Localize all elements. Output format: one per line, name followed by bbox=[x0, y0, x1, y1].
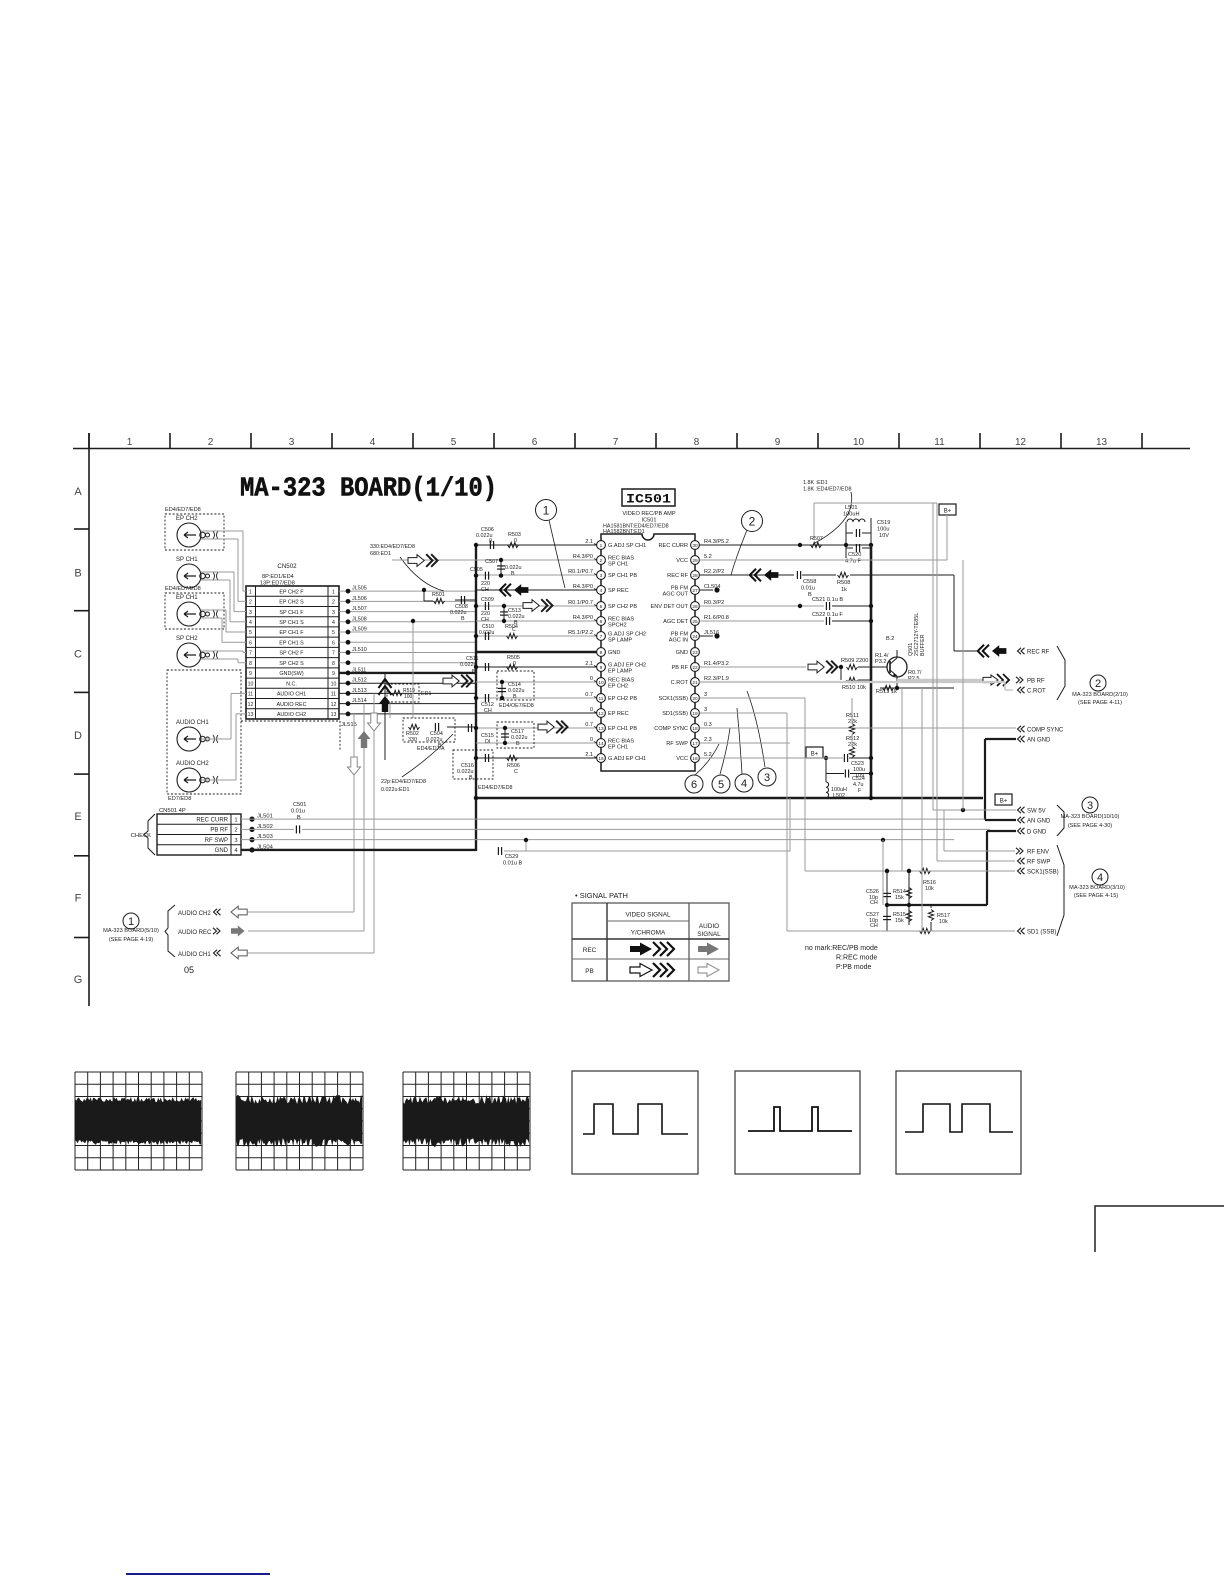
svg-text:HA1582BNT:ED1: HA1582BNT:ED1 bbox=[603, 529, 645, 535]
svg-text:JL506: JL506 bbox=[352, 596, 367, 602]
svg-text:0: 0 bbox=[514, 538, 517, 544]
svg-text:ED4/ED7/A: ED4/ED7/A bbox=[417, 746, 445, 752]
svg-text:10: 10 bbox=[853, 437, 865, 448]
svg-text:13: 13 bbox=[248, 712, 254, 718]
svg-text:ED4/OE7/ED8: ED4/OE7/ED8 bbox=[499, 703, 534, 709]
svg-text:3: 3 bbox=[249, 610, 252, 616]
svg-text:B: B bbox=[461, 616, 465, 622]
svg-text:4: 4 bbox=[249, 620, 252, 626]
svg-text:22: 22 bbox=[692, 665, 698, 671]
svg-text:1: 1 bbox=[234, 817, 237, 823]
svg-text:0.022u: 0.022u bbox=[479, 630, 495, 636]
svg-text:1: 1 bbox=[249, 589, 252, 595]
svg-text:AN GND: AN GND bbox=[1027, 818, 1051, 824]
svg-text:3: 3 bbox=[704, 707, 707, 713]
svg-text:CH: CH bbox=[481, 587, 489, 593]
svg-text:1: 1 bbox=[543, 503, 550, 517]
svg-text:5.2: 5.2 bbox=[704, 554, 712, 560]
svg-text:B: B bbox=[469, 775, 473, 781]
svg-text:VCC: VCC bbox=[676, 558, 688, 564]
svg-text:R4.3/P0: R4.3/P0 bbox=[573, 584, 593, 590]
svg-text:C520: C520 bbox=[848, 552, 861, 558]
svg-text:• SIGNAL PATH: • SIGNAL PATH bbox=[575, 891, 628, 900]
svg-text:0.022u:ED1: 0.022u:ED1 bbox=[381, 787, 409, 793]
svg-text:19: 19 bbox=[692, 711, 698, 717]
svg-text:C509: C509 bbox=[481, 597, 494, 603]
svg-text:1: 1 bbox=[128, 916, 134, 928]
svg-text:AUDIO CH2: AUDIO CH2 bbox=[176, 761, 209, 767]
svg-text:GND: GND bbox=[676, 650, 688, 656]
svg-text:330: 330 bbox=[408, 737, 417, 743]
svg-text:4.7u F: 4.7u F bbox=[845, 559, 861, 565]
svg-text:4: 4 bbox=[370, 437, 376, 448]
svg-text:12: 12 bbox=[331, 702, 337, 708]
svg-text:C529: C529 bbox=[505, 854, 518, 860]
svg-text:P:PB mode: P:PB mode bbox=[836, 964, 872, 971]
svg-text:AUDIO CH2: AUDIO CH2 bbox=[178, 911, 211, 917]
svg-text:AGC OUT: AGC OUT bbox=[663, 592, 689, 598]
svg-text:ENV DET OUT: ENV DET OUT bbox=[650, 604, 688, 610]
svg-text:0: 0 bbox=[590, 676, 593, 682]
svg-text:B: B bbox=[513, 694, 517, 700]
svg-text:0: 0 bbox=[513, 661, 516, 667]
svg-text:EP CH1: EP CH1 bbox=[176, 595, 198, 601]
svg-text:C505: C505 bbox=[470, 567, 483, 573]
svg-text:5.2: 5.2 bbox=[704, 752, 712, 758]
svg-text:1: 1 bbox=[332, 589, 335, 595]
svg-text:C519: C519 bbox=[877, 520, 890, 526]
svg-text:ED4/ED7/ED8: ED4/ED7/ED8 bbox=[165, 586, 201, 592]
svg-text:2: 2 bbox=[234, 828, 237, 834]
svg-text:5: 5 bbox=[332, 630, 335, 636]
svg-text:(SEE PAGE 4-19): (SEE PAGE 4-19) bbox=[109, 937, 153, 943]
svg-text:R0.1/P0.7: R0.1/P0.7 bbox=[568, 569, 593, 575]
svg-text:2: 2 bbox=[600, 558, 603, 564]
svg-text:11: 11 bbox=[248, 692, 253, 698]
svg-text:L501: L501 bbox=[845, 505, 857, 511]
svg-text:15: 15 bbox=[598, 756, 604, 762]
svg-text:R0.1/P0.7: R0.1/P0.7 bbox=[568, 600, 593, 606]
svg-text:AUDIO REC: AUDIO REC bbox=[277, 702, 307, 708]
svg-text:MA-323 BOARD(3/10): MA-323 BOARD(3/10) bbox=[1069, 885, 1125, 891]
svg-text:R513 1k: R513 1k bbox=[876, 689, 897, 695]
svg-text:3: 3 bbox=[600, 573, 603, 579]
svg-text:E: E bbox=[74, 811, 81, 823]
svg-text:6: 6 bbox=[691, 779, 697, 791]
svg-text:DI: DI bbox=[485, 739, 490, 745]
svg-text:SP CH1 F: SP CH1 F bbox=[279, 610, 304, 616]
svg-text:EP CH1 F: EP CH1 F bbox=[279, 630, 304, 636]
svg-text:22p:ED4/ED7/ED8: 22p:ED4/ED7/ED8 bbox=[381, 779, 426, 785]
svg-text:3: 3 bbox=[1087, 800, 1093, 812]
svg-text:G: G bbox=[74, 974, 83, 986]
svg-text:23: 23 bbox=[692, 650, 698, 656]
svg-text:0.01u: 0.01u bbox=[801, 586, 815, 592]
svg-text:2.3: 2.3 bbox=[704, 737, 712, 743]
svg-text:EP CH2 S: EP CH2 S bbox=[279, 600, 304, 606]
svg-text:REC RF: REC RF bbox=[667, 573, 688, 579]
svg-text:C558: C558 bbox=[803, 579, 816, 585]
svg-text:SPCH2: SPCH2 bbox=[608, 623, 627, 629]
svg-text:D: D bbox=[74, 730, 82, 742]
svg-text:2: 2 bbox=[749, 514, 756, 528]
svg-text:B: B bbox=[511, 571, 515, 577]
svg-text:PB: PB bbox=[585, 968, 594, 975]
svg-text:1.8K :ED1: 1.8K :ED1 bbox=[803, 480, 828, 486]
svg-text:SP REC: SP REC bbox=[608, 588, 629, 594]
svg-text:C.ROT: C.ROT bbox=[671, 680, 689, 686]
svg-text:C: C bbox=[512, 627, 516, 633]
svg-text:4: 4 bbox=[600, 588, 603, 594]
svg-text:EP REC: EP REC bbox=[608, 711, 629, 717]
svg-text:A: A bbox=[74, 486, 82, 498]
svg-text:GND: GND bbox=[608, 650, 620, 656]
svg-text:330:ED4/ED7/ED8: 330:ED4/ED7/ED8 bbox=[370, 544, 415, 550]
svg-text:7: 7 bbox=[249, 651, 252, 657]
svg-text:11: 11 bbox=[331, 692, 336, 698]
svg-text:10k: 10k bbox=[939, 919, 948, 925]
svg-text:EP CH1: EP CH1 bbox=[608, 745, 628, 751]
svg-text:(SEE PAGE 4-11): (SEE PAGE 4-11) bbox=[1078, 700, 1122, 706]
svg-text:3: 3 bbox=[234, 838, 237, 844]
svg-text:C521 0.1u B: C521 0.1u B bbox=[812, 597, 843, 603]
svg-text:13: 13 bbox=[1096, 437, 1108, 448]
svg-text:B: B bbox=[74, 567, 81, 579]
svg-text:17: 17 bbox=[692, 741, 698, 747]
svg-text:R1.6/P0.8: R1.6/P0.8 bbox=[704, 615, 729, 621]
svg-text:Y/CHROMA: Y/CHROMA bbox=[631, 930, 666, 937]
svg-text:GND: GND bbox=[215, 848, 229, 854]
svg-text:3: 3 bbox=[289, 437, 295, 448]
svg-text:3: 3 bbox=[332, 610, 335, 616]
svg-text:REC: REC bbox=[583, 947, 597, 954]
svg-text:7: 7 bbox=[613, 437, 619, 448]
svg-text:21: 21 bbox=[692, 680, 698, 686]
svg-text:SCK1(SSB): SCK1(SSB) bbox=[658, 696, 688, 702]
svg-text:5: 5 bbox=[249, 630, 252, 636]
svg-text:IC501: IC501 bbox=[626, 492, 671, 507]
svg-text:CH: CH bbox=[481, 617, 489, 623]
svg-text:B: B bbox=[472, 669, 476, 675]
svg-text:10V: 10V bbox=[879, 533, 889, 539]
svg-text:B.2: B.2 bbox=[886, 636, 894, 642]
svg-text:3: 3 bbox=[704, 692, 707, 698]
svg-text:G.ADJ SP CH1: G.ADJ SP CH1 bbox=[608, 543, 646, 549]
svg-text:AUDIO: AUDIO bbox=[699, 923, 719, 930]
svg-text:05: 05 bbox=[184, 965, 194, 975]
svg-text:CH: CH bbox=[484, 708, 492, 714]
svg-text:B: B bbox=[489, 539, 493, 545]
svg-text:AUDIO CH1: AUDIO CH1 bbox=[277, 692, 306, 698]
svg-text:100u: 100u bbox=[877, 527, 889, 533]
svg-text:PB RF: PB RF bbox=[210, 828, 228, 834]
svg-text:14: 14 bbox=[598, 741, 604, 747]
svg-text:ED4/ED7/ED8: ED4/ED7/ED8 bbox=[478, 785, 512, 791]
svg-text:0: 0 bbox=[590, 737, 593, 743]
svg-text:1.8K :ED4/ED7/ED8: 1.8K :ED4/ED7/ED8 bbox=[803, 487, 852, 493]
svg-text:C507: C507 bbox=[485, 559, 498, 565]
svg-text:11: 11 bbox=[934, 437, 945, 448]
svg-text:29: 29 bbox=[692, 558, 698, 564]
svg-text:6: 6 bbox=[532, 437, 538, 448]
svg-text:C: C bbox=[74, 649, 82, 661]
svg-text:ED4/ED7/ED8: ED4/ED7/ED8 bbox=[165, 507, 201, 513]
svg-text:10: 10 bbox=[331, 681, 337, 687]
svg-text:R1.4/P3.2: R1.4/P3.2 bbox=[704, 661, 729, 667]
svg-text:JL509: JL509 bbox=[352, 627, 367, 633]
svg-text:B: B bbox=[297, 815, 301, 821]
svg-text:12: 12 bbox=[598, 711, 604, 717]
svg-text:SP CH2 PB: SP CH2 PB bbox=[608, 604, 637, 610]
svg-text:0.3: 0.3 bbox=[704, 722, 712, 728]
svg-text:7: 7 bbox=[600, 634, 603, 640]
svg-text:C522 0.1u F: C522 0.1u F bbox=[812, 612, 843, 618]
svg-text:4: 4 bbox=[1097, 872, 1103, 884]
svg-text:8: 8 bbox=[332, 661, 335, 667]
svg-text:30: 30 bbox=[692, 543, 698, 549]
svg-text:AGC DET: AGC DET bbox=[663, 619, 688, 625]
svg-text:CH: CH bbox=[870, 900, 878, 906]
svg-text:PB RF: PB RF bbox=[1027, 678, 1045, 684]
svg-text:6: 6 bbox=[332, 640, 335, 646]
svg-text:100uH: 100uH bbox=[843, 512, 859, 518]
svg-text:0.01u B: 0.01u B bbox=[503, 861, 523, 867]
svg-text:REC CURR: REC CURR bbox=[658, 543, 688, 549]
svg-text:JL514: JL514 bbox=[352, 698, 367, 704]
svg-text:BUFFER: BUFFER bbox=[920, 634, 926, 656]
svg-text:25: 25 bbox=[692, 619, 698, 625]
svg-text:2: 2 bbox=[1095, 678, 1101, 690]
svg-text:R5.1/P2.2: R5.1/P2.2 bbox=[568, 630, 593, 636]
svg-text:4: 4 bbox=[234, 848, 238, 854]
svg-text:8: 8 bbox=[694, 437, 700, 448]
svg-text:7: 7 bbox=[332, 651, 335, 657]
svg-text:2: 2 bbox=[208, 437, 214, 448]
svg-text:100: 100 bbox=[404, 694, 413, 700]
svg-text:EP LAMP: EP LAMP bbox=[608, 669, 632, 675]
svg-text:EP CH2 PB: EP CH2 PB bbox=[608, 696, 637, 702]
svg-text:R507: R507 bbox=[810, 536, 823, 542]
svg-text:RF SWP: RF SWP bbox=[666, 741, 688, 747]
svg-text:CH: CH bbox=[870, 923, 878, 929]
svg-text:COMP SYNC: COMP SYNC bbox=[654, 726, 688, 732]
svg-text:2: 2 bbox=[249, 600, 252, 606]
svg-text:F: F bbox=[858, 788, 862, 794]
svg-text:24: 24 bbox=[692, 634, 698, 640]
svg-text:C501: C501 bbox=[293, 802, 306, 808]
svg-text:4: 4 bbox=[741, 778, 747, 790]
svg-text:VIDEO SIGNAL: VIDEO SIGNAL bbox=[625, 912, 671, 919]
svg-text:GND(SW): GND(SW) bbox=[279, 671, 303, 677]
svg-text:15k: 15k bbox=[895, 895, 904, 901]
svg-text:SW 5V: SW 5V bbox=[1027, 808, 1046, 814]
svg-text:2.1: 2.1 bbox=[585, 752, 593, 758]
svg-text:SCK1(SSB): SCK1(SSB) bbox=[1027, 869, 1059, 875]
svg-text:SP CH2 F: SP CH2 F bbox=[279, 651, 304, 657]
svg-text:RF SWP: RF SWP bbox=[1027, 859, 1050, 865]
svg-text:10: 10 bbox=[598, 680, 604, 686]
svg-text:16: 16 bbox=[692, 756, 698, 762]
svg-text:SP CH2 S: SP CH2 S bbox=[279, 661, 304, 667]
svg-text:REC CURR: REC CURR bbox=[196, 817, 228, 823]
svg-text:C: C bbox=[514, 769, 518, 775]
svg-text:6: 6 bbox=[600, 619, 603, 625]
svg-text:2.1: 2.1 bbox=[585, 539, 593, 545]
svg-text:ED1: ED1 bbox=[421, 691, 432, 697]
svg-text:AUDIO CH2: AUDIO CH2 bbox=[277, 712, 306, 718]
svg-text:JL507: JL507 bbox=[352, 606, 367, 612]
svg-text:JL513: JL513 bbox=[352, 688, 367, 694]
svg-text:JL508: JL508 bbox=[352, 616, 367, 622]
svg-text:B+: B+ bbox=[944, 509, 952, 515]
svg-text:9: 9 bbox=[332, 671, 335, 677]
svg-text:R508: R508 bbox=[837, 580, 850, 586]
svg-text:9: 9 bbox=[249, 671, 252, 677]
svg-text:5: 5 bbox=[718, 779, 724, 791]
svg-text:REC RF: REC RF bbox=[1027, 649, 1050, 655]
svg-text:2: 2 bbox=[332, 600, 335, 606]
svg-text:SP CH2: SP CH2 bbox=[176, 636, 198, 642]
svg-text:4: 4 bbox=[332, 620, 335, 626]
svg-text:R2.2/P2: R2.2/P2 bbox=[704, 569, 724, 575]
svg-text:G.ADJ EP CH1: G.ADJ EP CH1 bbox=[608, 756, 646, 762]
svg-text:9: 9 bbox=[775, 437, 781, 448]
svg-text:AUDIO CH1: AUDIO CH1 bbox=[176, 720, 209, 726]
svg-text:R501: R501 bbox=[432, 592, 445, 598]
svg-text:AGC IN: AGC IN bbox=[669, 638, 688, 644]
svg-text:R4.3/P0: R4.3/P0 bbox=[573, 554, 593, 560]
svg-text:1k: 1k bbox=[841, 587, 847, 593]
svg-text:SP CH1 PB: SP CH1 PB bbox=[608, 573, 637, 579]
svg-text:13P:ED7/ED8: 13P:ED7/ED8 bbox=[260, 581, 295, 587]
svg-text:N.C.: N.C. bbox=[286, 681, 297, 687]
svg-text:SP CH1: SP CH1 bbox=[608, 562, 628, 568]
svg-text:MA-323 BOARD(2/10): MA-323 BOARD(2/10) bbox=[1072, 692, 1128, 698]
svg-text:10: 10 bbox=[248, 681, 254, 687]
svg-text:28: 28 bbox=[692, 573, 698, 579]
svg-text:B: B bbox=[516, 741, 520, 747]
svg-text:JL510: JL510 bbox=[352, 647, 367, 653]
svg-text:EP CH2: EP CH2 bbox=[608, 684, 628, 690]
svg-text:MA-323 BOARD(5/10): MA-323 BOARD(5/10) bbox=[103, 928, 159, 934]
svg-text:AUDIO REC: AUDIO REC bbox=[178, 930, 212, 936]
svg-text:JL511: JL511 bbox=[352, 667, 366, 673]
svg-text:VIDEO REC/PB AMP: VIDEO REC/PB AMP bbox=[622, 511, 675, 517]
svg-text:SIGNAL: SIGNAL bbox=[697, 931, 721, 938]
svg-text:JL512: JL512 bbox=[352, 678, 367, 684]
svg-text:R510 10k: R510 10k bbox=[842, 685, 866, 691]
svg-text:EP CH2 F: EP CH2 F bbox=[279, 589, 304, 595]
svg-text:CN501 4P: CN501 4P bbox=[159, 808, 186, 814]
svg-text:(SEE PAGE 4-15): (SEE PAGE 4-15) bbox=[1074, 893, 1118, 899]
svg-text:SP LAMP: SP LAMP bbox=[608, 638, 632, 644]
svg-text:ED7/ED8: ED7/ED8 bbox=[168, 796, 191, 802]
svg-text:JL505: JL505 bbox=[352, 586, 367, 592]
svg-text:no mark:REC/PB mode: no mark:REC/PB mode bbox=[805, 945, 878, 952]
svg-text:RF SWP: RF SWP bbox=[205, 838, 228, 844]
svg-text:SD1 (SSB): SD1 (SSB) bbox=[1027, 929, 1056, 935]
svg-text:3: 3 bbox=[764, 772, 770, 784]
svg-text:P3.2: P3.2 bbox=[875, 659, 887, 665]
svg-text:R4.3/P0: R4.3/P0 bbox=[573, 615, 593, 621]
svg-text:MA-323 BOARD(10/10): MA-323 BOARD(10/10) bbox=[1061, 814, 1120, 820]
svg-text:R0.3/P2: R0.3/P2 bbox=[704, 600, 724, 606]
svg-text:COMP SYNC: COMP SYNC bbox=[1027, 727, 1064, 733]
svg-text:AUDIO CH1: AUDIO CH1 bbox=[178, 952, 211, 958]
svg-text:8P:ED1/ED4: 8P:ED1/ED4 bbox=[262, 574, 294, 580]
svg-text:D GND: D GND bbox=[1027, 829, 1047, 835]
svg-text:12: 12 bbox=[248, 702, 254, 708]
svg-text:20: 20 bbox=[692, 696, 698, 702]
svg-text:10k: 10k bbox=[925, 886, 934, 892]
svg-text:R:REC mode: R:REC mode bbox=[836, 955, 877, 962]
svg-text:0.7: 0.7 bbox=[585, 722, 593, 728]
svg-text:2.1: 2.1 bbox=[585, 661, 593, 667]
svg-text:EP CH1 PB: EP CH1 PB bbox=[608, 726, 637, 732]
svg-text:(SEE PAGE 4-30): (SEE PAGE 4-30) bbox=[1068, 823, 1112, 829]
svg-text:27: 27 bbox=[692, 588, 698, 594]
svg-text:11: 11 bbox=[599, 696, 604, 702]
svg-text:6: 6 bbox=[249, 640, 252, 646]
svg-text:C.ROT: C.ROT bbox=[1027, 688, 1046, 694]
svg-text:PB RF: PB RF bbox=[672, 665, 689, 671]
svg-text:1: 1 bbox=[600, 543, 603, 549]
svg-text:CN502: CN502 bbox=[277, 563, 297, 570]
svg-text:0.7: 0.7 bbox=[585, 692, 593, 698]
svg-text:8: 8 bbox=[249, 661, 252, 667]
svg-text:0: 0 bbox=[590, 707, 593, 713]
svg-text:1: 1 bbox=[127, 437, 133, 448]
svg-text:SP CH1: SP CH1 bbox=[176, 557, 198, 563]
svg-text:SD1(SSB): SD1(SSB) bbox=[662, 711, 688, 717]
svg-text:5: 5 bbox=[451, 437, 457, 448]
svg-text:R4.3/P5.2: R4.3/P5.2 bbox=[704, 539, 729, 545]
svg-text:EP CH1 S: EP CH1 S bbox=[279, 640, 304, 646]
svg-text:12: 12 bbox=[1015, 437, 1027, 448]
svg-text:8: 8 bbox=[600, 650, 603, 656]
svg-text:0.01u: 0.01u bbox=[291, 809, 305, 815]
svg-text:B+: B+ bbox=[811, 752, 819, 758]
svg-text:RF ENV: RF ENV bbox=[1027, 849, 1049, 855]
svg-text:5: 5 bbox=[600, 604, 603, 610]
svg-text:15k: 15k bbox=[895, 918, 904, 924]
svg-text:F: F bbox=[75, 893, 82, 905]
svg-text:B+: B+ bbox=[1000, 799, 1008, 805]
svg-text:9: 9 bbox=[600, 665, 603, 671]
svg-text:26: 26 bbox=[692, 604, 698, 610]
svg-text:VCC: VCC bbox=[676, 756, 688, 762]
svg-text:EP CH2: EP CH2 bbox=[176, 516, 198, 522]
svg-text:18: 18 bbox=[692, 726, 698, 732]
svg-text:MA-323 BOARD(1/10): MA-323 BOARD(1/10) bbox=[240, 475, 497, 505]
svg-text:680:ED1: 680:ED1 bbox=[370, 551, 391, 557]
svg-text:R509 2200: R509 2200 bbox=[841, 658, 868, 664]
svg-text:SP CH1 S: SP CH1 S bbox=[279, 620, 304, 626]
svg-text:13: 13 bbox=[331, 712, 337, 718]
svg-text:AN GND: AN GND bbox=[1027, 737, 1051, 743]
svg-text:13: 13 bbox=[598, 726, 604, 732]
